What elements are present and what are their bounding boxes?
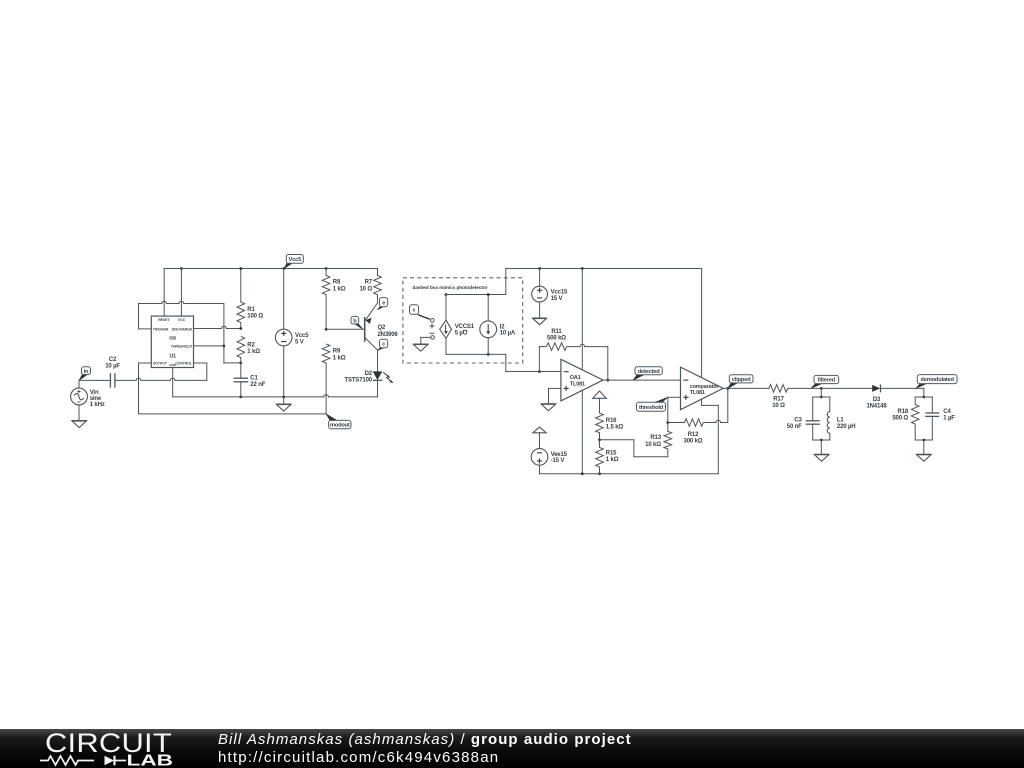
svg-text:detected: detected [638,369,661,375]
wire node to R2 bottom [224,362,241,364]
svg-text:10 µF: 10 µF [105,363,120,369]
capacitor C3 50nF [787,397,820,440]
voltage source V1 Vin 1kHz [71,380,105,420]
svg-text:TRIGGER: TRIGGER [153,328,169,332]
wire C2 to CONTROL (hops over OUTPUT and GND wires) [115,363,207,380]
resistor R16 1.5k [596,413,624,440]
svg-text:C4: C4 [943,409,951,415]
ground in dashed box [413,344,428,351]
ground below Vcc5 [276,404,291,411]
wire OA1 V+ down [581,269,583,372]
svg-text:Vcc5: Vcc5 [295,333,309,339]
node comparator output junction [726,387,729,390]
svg-text:2N3906: 2N3906 [378,332,399,338]
resistor R12 300k [668,419,728,445]
svg-text:1 kHz: 1 kHz [90,402,105,408]
svg-text:1 kΩ: 1 kΩ [247,349,260,355]
resistor R2 1k [237,337,260,363]
wire ground rail (hop over modout riser) [241,395,378,397]
capacitor C4 1uF [925,397,955,440]
supply arrow above R16 [593,391,607,413]
node threshold node junction [666,421,669,424]
wire inner top rail [446,269,506,295]
node I2 top junction [487,293,490,296]
resistor R11 500k [539,329,607,380]
node R18C4 bottom junction [922,439,925,442]
svg-text:clipped: clipped [732,377,751,383]
svg-text:demodulated: demodulated [921,377,955,383]
svg-text:R11: R11 [551,329,562,335]
svg-text:comparator: comparator [690,384,720,390]
inductor L1 220uH [827,397,855,440]
voltage source Vee15 -15V [531,449,567,474]
wire comparator to R17 [723,387,769,389]
flag e [377,298,387,310]
svg-text:VCCS1: VCCS1 [455,324,475,330]
svg-text:5 µ℧: 5 µ℧ [455,329,468,336]
svg-text:RESET: RESET [158,318,170,322]
wire RESET pin up [163,269,165,317]
svg-text:dashed box mimics photodetecto: dashed box mimics photodetector [412,285,487,291]
flag filtered [811,375,839,388]
svg-text:LAB: LAB [127,752,174,768]
current source VCCS1 5u mho (diamond) [440,320,475,338]
wire OUTPUT down (modout) [139,363,327,414]
svg-text:R8: R8 [333,280,341,286]
svg-text:R13: R13 [650,435,661,441]
node R11 tap junction [538,370,541,373]
svg-text:15 V: 15 V [551,296,563,302]
svg-text:D2: D2 [365,371,373,377]
wire filtered to D3 [821,387,872,389]
CircuitLab logo [0,729,200,768]
svg-text:TL081: TL081 [570,381,585,387]
wire R9 bottom to modout (crosses rail) [325,397,327,414]
svg-text:R1: R1 [247,307,255,313]
svg-text:Vcc15: Vcc15 [551,290,568,296]
wire tank to ground [820,440,822,455]
wire filtered node down [820,388,822,397]
node tank bottom junction [820,439,823,442]
current source I2 10uA [480,321,516,338]
resistor R1 100 [237,269,263,329]
wire tank bottom [813,439,830,441]
wire I2 top [487,295,489,321]
diode D2 TSTS7100 LED [345,371,393,397]
svg-text:5 V: 5 V [295,339,304,345]
svg-text:R12: R12 [688,432,699,438]
wire TRIGGER loop [139,304,152,329]
wire threshold to comparator + [668,397,681,422]
op-amp/IC U1 555 timer box [151,316,193,367]
node R15 rail junction [598,472,601,475]
node C1 bottom junction [239,396,242,399]
node VCC-rail junction [180,267,183,270]
svg-text:1N4148: 1N4148 [866,403,887,409]
svg-text:500 kΩ: 500 kΩ [547,336,566,342]
svg-text:e: e [382,300,385,306]
svg-text:filtered: filtered [818,378,836,384]
svg-text:R7: R7 [365,280,373,286]
svg-text:R16: R16 [606,418,617,424]
svg-text:10 Ω: 10 Ω [359,286,372,292]
flag Vcc5 [284,255,303,269]
node OA1 V- rail junction [581,472,584,475]
svg-text:10 kΩ: 10 kΩ [645,442,661,448]
ground below Vin [72,421,87,428]
svg-text:THRESHOLD: THRESHOLD [171,345,193,349]
svg-text:CONTROL: CONTROL [175,361,192,365]
resistor R15 1k [596,440,619,474]
capacitor C1 22nF [234,363,266,397]
wire R12 up to output [727,388,729,422]
svg-text:R15: R15 [606,451,617,457]
wire top rail Vcc5 area [164,268,377,270]
resistor R13 10k [645,423,671,457]
svg-text:I2: I2 [500,324,506,330]
wire vertical x224 to THRESHOLD/CONTROL node [223,304,225,363]
wire R16 node to R13 [600,440,668,457]
svg-text:22 nF: 22 nF [250,382,265,388]
svg-text:C2: C2 [109,357,117,363]
svg-text:in: in [84,369,89,375]
svg-text:10 µA: 10 µA [500,331,516,337]
wire base [326,328,365,330]
voltage source Vcc15 15V [532,269,568,319]
resistor R9 1k [322,344,345,397]
svg-text:1 µF: 1 µF [943,416,955,422]
node R16-R15 junction [598,438,601,441]
supply arrow above Vee15 [533,427,546,449]
svg-text:c: c [382,342,385,348]
node base junction [325,328,328,331]
svg-text:Q2: Q2 [378,325,387,331]
svg-text:TSTS7100: TSTS7100 [345,378,373,384]
wire VCCS1 bottom [445,338,447,354]
ground below Vcc15 [533,318,547,324]
wire comparator V- route [702,399,719,474]
voltage source Vcc5 5V [275,269,309,405]
node R18 tank top junction [922,396,925,399]
svg-text:1 kΩ: 1 kΩ [333,286,346,292]
svg-text:D3: D3 [873,397,881,403]
flag in [79,367,91,381]
ground below R18C4 [917,455,932,462]
wire top rail right [506,268,702,270]
op-amp comparator TL081 [681,367,724,410]
resistor R8 1k [322,269,345,330]
flag demodulated [916,375,957,389]
dashed box mimics photodetector [403,278,523,363]
svg-text:threshold: threshold [639,405,664,411]
svg-text:1 kΩ: 1 kΩ [606,457,619,463]
node VCCS1 top junction [445,293,448,296]
svg-text:TL081: TL081 [690,390,705,396]
node R1-R2 junction [239,327,242,330]
svg-text:C1: C1 [250,375,258,381]
svg-text:300 kΩ: 300 kΩ [684,439,703,445]
wire to ground [923,440,925,455]
svg-text:50 nF: 50 nF [787,424,802,430]
wire VCC pin up [180,269,182,317]
wire OA1 output to comparator [603,379,680,381]
wire - terminal to ground [421,337,431,344]
terminal + of VCCS1 [430,319,435,329]
flag c [377,339,387,350]
svg-text:OA1: OA1 [570,375,581,381]
wire comparator V+ down [701,269,703,379]
flag c (photodiode current) [410,305,430,319]
svg-text:L1: L1 [837,418,845,424]
svg-text:R18: R18 [898,409,909,415]
svg-text:-15 V: -15 V [551,458,565,464]
wire GND pin down [173,368,241,397]
node Vcc15 rail junction [538,267,541,270]
flag b [351,316,363,329]
wire inner bottom rail to OA1 input [446,354,561,371]
node THRESHOLD junction [223,345,226,348]
wire Vee15 bottom rail [540,473,719,475]
svg-text:U1: U1 [170,353,177,359]
wire collector to D2 [377,350,379,371]
wire DISCHARGE to R1/R2 (hop over x224) [194,326,241,328]
flag threshold [637,397,668,411]
transistor Q2 2N3906 PNP [365,303,399,350]
svg-text:OUTPUT: OUTPUT [153,361,168,365]
wire R18C4 tank bottom [915,439,932,441]
wire OA1 V- down [581,390,583,474]
wire tank top [813,396,830,398]
svg-text:100 Ω: 100 Ω [247,314,263,320]
resistor R7 10 [359,269,381,304]
node OA1 V+ rail junction [581,267,584,270]
wire R18C4 tank top [915,396,932,398]
wire VCCS1 top [445,295,447,321]
node tank top junction [820,396,823,399]
wire Vin to C2 [79,379,103,381]
resistor R18 500 [892,397,919,440]
wire I2 bottom [487,338,489,355]
svg-text:R9: R9 [333,349,341,355]
svg-text:Vcc5: Vcc5 [289,257,302,263]
wire THRESHOLD [194,345,224,347]
svg-text:VCC: VCC [178,318,186,322]
node rail-R8 junction [325,267,328,270]
terminal - of VCCS1 [430,333,435,339]
node I2 bottom junction [487,353,490,356]
node OA1 output junction [606,379,609,382]
svg-text:DISCHARGE: DISCHARGE [172,328,193,332]
svg-text:R17: R17 [773,396,784,402]
node R2-C1 junction [239,362,242,365]
node Vcc5 ground junction [282,396,285,399]
flag clipped [728,375,753,389]
svg-text:500 Ω: 500 Ω [892,416,908,422]
svg-text:555: 555 [169,336,176,341]
op-amp OA1 TL081 [561,359,603,401]
node filtered junction [820,387,823,390]
svg-text:1.5 kΩ: 1.5 kΩ [606,425,624,431]
svg-text:220 µH: 220 µH [837,424,856,430]
svg-text:1 kΩ: 1 kΩ [333,355,346,361]
wire top loop y303 (hops over RESET,VCC wires) [139,301,224,303]
ground below tank [814,455,829,462]
svg-text:c: c [413,308,416,314]
node Vcc5 rail junction [283,267,286,270]
svg-text:R2: R2 [247,343,255,349]
diode D3 1N4148 [866,384,887,409]
wire OA1 + input to ground [549,388,561,404]
flag detected [633,367,662,380]
svg-text:C3: C3 [794,418,802,424]
svg-text:10 Ω: 10 Ω [772,403,785,409]
flag modout [326,414,351,429]
capacitor C2 10uF [103,357,120,388]
resistor R17 10 [769,385,821,409]
ground below OA1 + input [541,404,556,411]
svg-text:modout: modout [330,423,350,429]
node rail-R1 junction [239,267,242,270]
wire D3 to demodulated [881,388,924,397]
